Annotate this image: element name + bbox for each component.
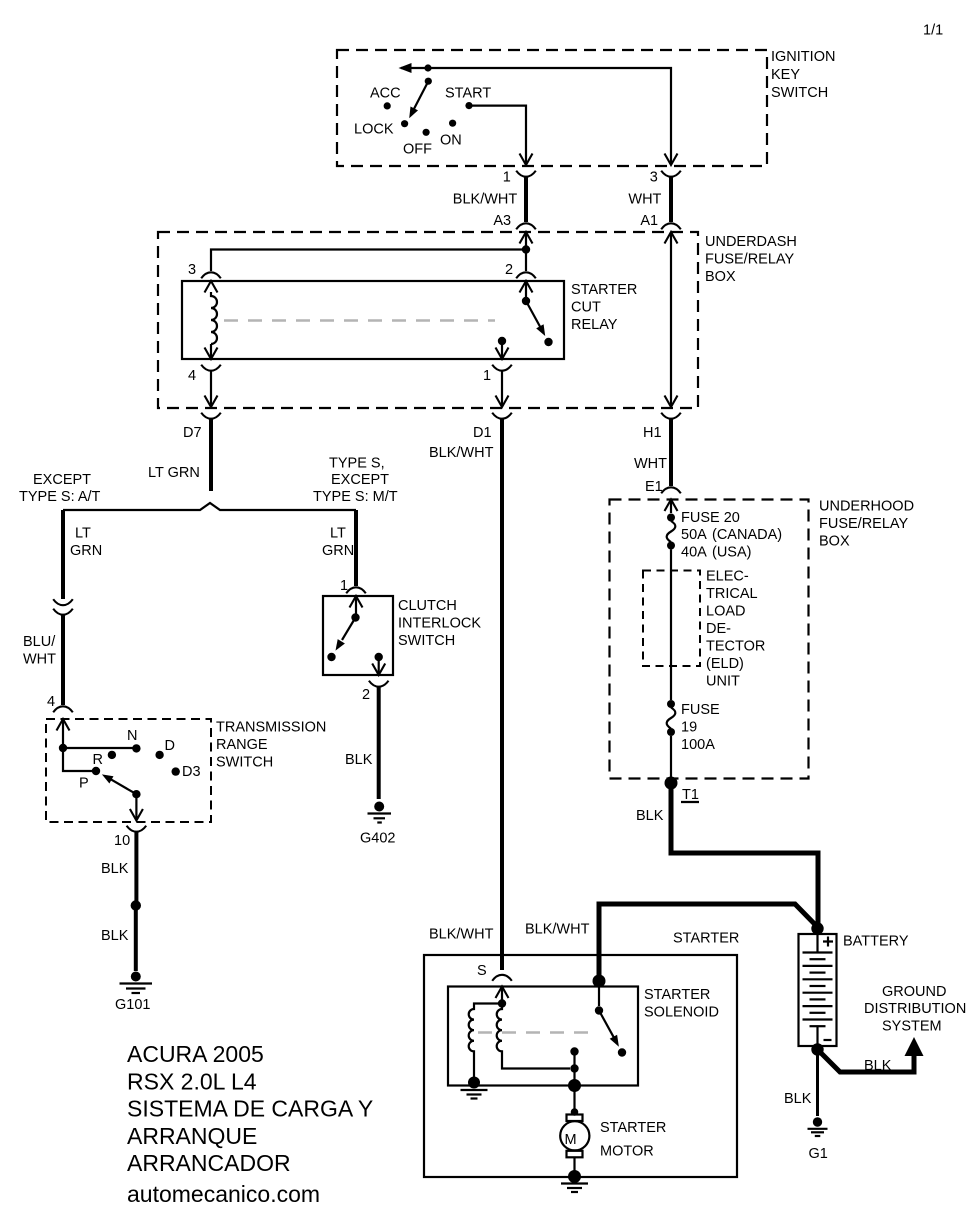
svg-text:E1: E1 — [645, 479, 663, 495]
relay coil — [205, 292, 218, 359]
svg-text:STARTER: STARTER — [571, 282, 637, 298]
relay pin 1 connector — [483, 365, 512, 384]
svg-text:LT GRN: LT GRN — [148, 465, 200, 481]
wire E1 into box — [670, 500, 672, 514]
solenoid pin S arrow — [496, 987, 509, 1001]
svg-text:3: 3 — [188, 262, 196, 278]
wire fuse20 to ELD — [670, 550, 672, 571]
ground G1 — [808, 1117, 828, 1162]
contact R — [93, 751, 117, 768]
contact D — [155, 738, 175, 759]
connector TRS pin 4 — [47, 694, 73, 731]
svg-text:(ELD): (ELD) — [706, 656, 744, 672]
svg-text:T1: T1 — [682, 787, 699, 803]
connector pin 3 (ignition) — [650, 170, 681, 186]
svg-text:100A: 100A — [681, 737, 715, 753]
svg-text:IGNITION: IGNITION — [771, 49, 835, 65]
svg-text:EXCEPT: EXCEPT — [33, 472, 91, 488]
ELD unit box — [643, 571, 700, 667]
starter cut relay label — [571, 282, 637, 333]
transmission range switch label — [216, 720, 326, 771]
wire WHT H1 to E1 — [634, 418, 671, 486]
svg-text:WHT: WHT — [628, 192, 661, 208]
svg-text:SWITCH: SWITCH — [216, 755, 273, 771]
svg-text:CUT: CUT — [571, 300, 601, 316]
connector H1 — [643, 413, 681, 441]
connector D7 — [183, 413, 221, 441]
relay switch fixed contact (pin2) — [522, 297, 530, 305]
svg-text:CLUTCH: CLUTCH — [398, 598, 457, 614]
svg-text:MOTOR: MOTOR — [600, 1144, 654, 1160]
solenoid coil ground — [461, 1077, 488, 1099]
wire BLK T1 to battery positive — [636, 783, 818, 924]
svg-text:ELEC-: ELEC- — [706, 569, 749, 585]
ground distribution system label — [864, 984, 966, 1035]
svg-text:40A: 40A — [681, 545, 707, 561]
svg-text:N: N — [127, 728, 137, 744]
svg-text:H1: H1 — [643, 425, 662, 441]
svg-text:ON: ON — [440, 133, 462, 149]
wire TRS pin4 to N and P — [62, 719, 64, 748]
contact ON — [440, 120, 462, 149]
wire relay pin4 to D7 — [205, 370, 218, 407]
wire BLU/WHT to TRS pin 4 — [23, 614, 63, 705]
wire fuse19 to T1 — [670, 736, 672, 783]
svg-text:2: 2 — [362, 687, 370, 703]
clutch interlock switch label — [398, 598, 481, 649]
svg-text:BLK: BLK — [784, 1091, 812, 1107]
wire through ELD — [670, 571, 672, 701]
arrow left from ignition common — [399, 63, 429, 73]
svg-text:STARTER: STARTER — [600, 1120, 666, 1136]
svg-text:BLK/WHT: BLK/WHT — [429, 445, 494, 461]
wire LT GRN left branch — [63, 510, 102, 599]
splice node — [131, 900, 141, 910]
svg-text:LT: LT — [330, 526, 346, 542]
relay switch open contact — [544, 338, 552, 346]
wire junction to relay pin 3 — [211, 250, 526, 272]
wire BLK TRS to splice — [101, 831, 136, 901]
solenoid dashed link — [478, 1031, 596, 1034]
connector D1 — [473, 413, 512, 441]
svg-text:1/1: 1/1 — [923, 23, 943, 39]
svg-text:FUSE 20: FUSE 20 — [681, 510, 740, 526]
wire junction to P — [63, 748, 94, 771]
clutch switch lower contact — [327, 653, 335, 661]
svg-text:SOLENOID: SOLENOID — [644, 1005, 719, 1021]
svg-text:M: M — [565, 1132, 577, 1148]
ignition switch arm (pivot to LOCK) — [409, 81, 428, 118]
wire A1 to H1 through box — [665, 232, 678, 407]
wire: ignition common to pin 3 — [428, 68, 678, 165]
svg-text:10: 10 — [114, 833, 130, 849]
clutch switch output contact — [372, 653, 385, 675]
svg-text:RELAY: RELAY — [571, 317, 618, 333]
svg-text:1: 1 — [340, 578, 348, 594]
svg-text:WHT: WHT — [23, 652, 56, 668]
ignition key switch label — [771, 49, 835, 101]
relay pin 4 connector — [188, 365, 221, 384]
svg-text:BLU/: BLU/ — [23, 634, 56, 650]
node: ignition rotor top — [424, 64, 431, 71]
node TRS junction — [59, 744, 67, 752]
connector E1 — [645, 479, 681, 511]
wire LT GRN right branch to clutch switch — [322, 510, 356, 586]
node battery negative — [811, 1043, 823, 1055]
svg-text:TYPE S,: TYPE S, — [329, 456, 385, 472]
underhood box label — [819, 499, 914, 550]
starter solenoid box — [448, 987, 638, 1086]
svg-text:ACC: ACC — [370, 86, 401, 102]
title text block — [127, 1041, 373, 1207]
starter motor label — [600, 1120, 666, 1160]
svg-text:S: S — [477, 963, 487, 979]
svg-text:2: 2 — [505, 262, 513, 278]
wire BLK clutch to G402 — [345, 686, 379, 799]
relay pin 3 connector — [188, 262, 221, 293]
svg-text:KEY: KEY — [771, 67, 800, 83]
underhood fuse/relay box — [610, 500, 809, 779]
svg-text:FUSE: FUSE — [681, 702, 720, 718]
svg-text:UNIT: UNIT — [706, 674, 740, 690]
svg-text:EXCEPT: EXCEPT — [331, 472, 389, 488]
svg-text:STARTER: STARTER — [644, 987, 710, 1003]
connector A1 — [640, 213, 680, 244]
node battery positive — [811, 922, 823, 934]
fuse 19 label — [681, 702, 720, 753]
svg-text:UNDERDASH: UNDERDASH — [705, 234, 797, 250]
clutch switch top contact — [350, 596, 363, 622]
svg-text:SWITCH: SWITCH — [398, 633, 455, 649]
label type S except M/T — [313, 456, 398, 506]
wire BLK battery to ground distribution — [818, 1050, 915, 1075]
starter motor M1 — [560, 1108, 589, 1176]
contact OFF — [403, 129, 432, 158]
svg-text:LOCK: LOCK — [354, 122, 394, 138]
connector TRS pin 10 — [114, 826, 146, 849]
svg-text:TRICAL: TRICAL — [706, 586, 758, 602]
node: ignition rotor pivot — [425, 78, 432, 85]
svg-text:A3: A3 — [493, 213, 511, 229]
solenoid switch fixed contact — [570, 1047, 578, 1068]
svg-text:RSX 2.0L L4: RSX 2.0L L4 — [127, 1069, 257, 1095]
contact START — [445, 86, 491, 110]
contact D3 — [172, 764, 201, 780]
wire: START to pin 1 — [469, 106, 533, 165]
clutch switch arm — [336, 618, 356, 651]
svg-text:BLK: BLK — [101, 928, 129, 944]
battery — [799, 934, 837, 1046]
connector A3 — [493, 213, 535, 244]
starter solenoid label — [644, 987, 719, 1021]
svg-text:ARRANCADOR: ARRANCADOR — [127, 1150, 291, 1176]
svg-text:DE-: DE- — [706, 621, 731, 637]
underdash fuse/relay box — [158, 232, 698, 408]
svg-text:TECTOR: TECTOR — [706, 639, 765, 655]
wire junction to N — [63, 747, 136, 749]
svg-text:BLK/WHT: BLK/WHT — [453, 192, 518, 208]
contact N — [127, 728, 141, 753]
svg-text:automecanico.com: automecanico.com — [127, 1181, 320, 1207]
svg-text:19: 19 — [681, 720, 697, 736]
fuse 20 — [667, 514, 676, 550]
svg-text:GRN: GRN — [70, 543, 102, 559]
fuse 19 — [667, 700, 676, 736]
page number 1/1 — [923, 23, 943, 39]
svg-text:FUSE/RELAY: FUSE/RELAY — [819, 516, 909, 532]
svg-text:ACURA 2005: ACURA 2005 — [127, 1041, 264, 1067]
ground G402 — [360, 802, 395, 847]
wire BLK battery to G1 — [784, 1050, 818, 1117]
svg-text:D: D — [165, 738, 175, 754]
underdash box label — [705, 234, 797, 285]
svg-text:GROUND: GROUND — [882, 984, 946, 1000]
svg-text:OFF: OFF — [403, 142, 432, 158]
svg-text:TYPE S: M/T: TYPE S: M/T — [313, 489, 398, 505]
relay switch contact (pin1) — [496, 337, 509, 359]
svg-text:G101: G101 — [115, 997, 150, 1013]
svg-text:BLK: BLK — [864, 1058, 892, 1074]
ground distribution arrow — [905, 1037, 924, 1056]
svg-text:4: 4 — [47, 694, 55, 710]
svg-text:TRANSMISSION: TRANSMISSION — [216, 720, 326, 736]
node solenoid box edge — [568, 1079, 581, 1092]
relay switch arm — [526, 301, 545, 336]
solenoid switch arm — [599, 1011, 619, 1047]
svg-text:START: START — [445, 86, 491, 102]
svg-text:BOX: BOX — [819, 534, 850, 550]
svg-text:G1: G1 — [809, 1146, 828, 1162]
starter motor ground — [561, 1170, 588, 1192]
wire split node — [63, 503, 356, 510]
node solenoid coil top — [498, 999, 506, 1007]
svg-text:GRN: GRN — [322, 543, 354, 559]
svg-text:R: R — [93, 752, 103, 768]
label except type S A/T — [19, 472, 101, 505]
connector clutch pin 1 — [340, 578, 366, 594]
svg-text:SWITCH: SWITCH — [771, 85, 828, 101]
node T1 — [665, 777, 700, 804]
wire WHT pin3 to A1 — [628, 176, 671, 222]
svg-text:BLK/WHT: BLK/WHT — [429, 927, 494, 943]
svg-text:1: 1 — [483, 368, 491, 384]
svg-text:WHT: WHT — [634, 456, 667, 472]
starter cut relay box — [182, 281, 564, 359]
svg-text:LOAD: LOAD — [706, 604, 746, 620]
svg-text:50A: 50A — [681, 527, 707, 543]
starter label — [673, 931, 739, 947]
svg-text:SYSTEM: SYSTEM — [882, 1019, 942, 1035]
wire BLK splice to G101 — [101, 906, 136, 972]
relay pin 2 connector — [505, 262, 536, 297]
svg-text:P: P — [79, 776, 89, 792]
transmission range switch box — [46, 719, 211, 822]
TRS switch arm — [102, 774, 136, 794]
clutch interlock switch box — [323, 596, 393, 675]
svg-text:D3: D3 — [182, 764, 201, 780]
ELD unit label — [706, 569, 765, 690]
svg-text:BLK: BLK — [636, 808, 664, 824]
svg-text:RANGE: RANGE — [216, 737, 268, 753]
svg-text:BLK/WHT: BLK/WHT — [525, 922, 590, 938]
ground G101 — [115, 972, 152, 1014]
wire battery cable from starter to battery positive — [525, 904, 818, 978]
svg-text:BLK: BLK — [101, 861, 129, 877]
connector clutch pin 2 — [362, 681, 389, 703]
contact LOCK — [354, 120, 408, 137]
svg-text:ARRANQUE: ARRANQUE — [127, 1123, 257, 1149]
solenoid switch pivot — [595, 1006, 603, 1014]
svg-text:(CANADA): (CANADA) — [712, 527, 782, 543]
svg-text:DISTRIBUTION: DISTRIBUTION — [864, 1001, 966, 1017]
solenoid pull-in coil — [469, 1004, 502, 1079]
svg-text:1: 1 — [503, 170, 511, 186]
svg-text:A1: A1 — [640, 213, 658, 229]
svg-text:TYPE S: A/T: TYPE S: A/T — [19, 489, 101, 505]
wire BLK/WHT pin1 to A3 — [453, 176, 526, 222]
node battery cable at starter — [593, 975, 606, 1007]
wire solenoid to motor — [573, 1069, 575, 1113]
svg-text:G402: G402 — [360, 831, 395, 847]
fuse 20 label — [681, 510, 782, 561]
svg-text:D7: D7 — [183, 425, 202, 441]
solenoid switch moving contact — [618, 1048, 626, 1056]
svg-text:BOX: BOX — [705, 269, 736, 285]
svg-text:INTERLOCK: INTERLOCK — [398, 616, 481, 632]
svg-text:LT: LT — [75, 526, 91, 542]
svg-text:UNDERHOOD: UNDERHOOD — [819, 499, 914, 515]
svg-text:3: 3 — [650, 170, 658, 186]
connector S — [477, 963, 512, 981]
solenoid hold-in coil — [497, 1004, 570, 1069]
wire relay pin1 to D1 — [496, 370, 509, 407]
wire BLK/WHT D1 to starter S — [429, 418, 502, 970]
node A3 branch junction — [522, 245, 530, 253]
wire LT GRN from D7 to split — [148, 418, 211, 491]
svg-text:BLK: BLK — [345, 752, 373, 768]
svg-text:SISTEMA DE CARGA Y: SISTEMA DE CARGA Y — [127, 1096, 373, 1122]
svg-text:FUSE/RELAY: FUSE/RELAY — [705, 252, 795, 268]
battery label — [843, 934, 909, 950]
svg-text:D1: D1 — [473, 425, 492, 441]
connector pin 1 (ignition) — [503, 170, 536, 186]
contact P — [79, 767, 100, 792]
starter box — [424, 955, 737, 1177]
ignition key switch box — [337, 50, 767, 166]
contact ACC — [370, 86, 401, 110]
wire A3 down to relay pin 2 — [525, 232, 527, 271]
svg-text:STARTER: STARTER — [673, 931, 739, 947]
svg-text:(USA): (USA) — [712, 545, 751, 561]
svg-text:BATTERY: BATTERY — [843, 934, 909, 950]
relay internal dashed link — [224, 319, 495, 322]
svg-text:4: 4 — [188, 368, 196, 384]
inline connector (left branch) — [53, 599, 73, 615]
node TRS arm base — [130, 790, 143, 821]
node solenoid contact junction — [570, 1064, 578, 1072]
